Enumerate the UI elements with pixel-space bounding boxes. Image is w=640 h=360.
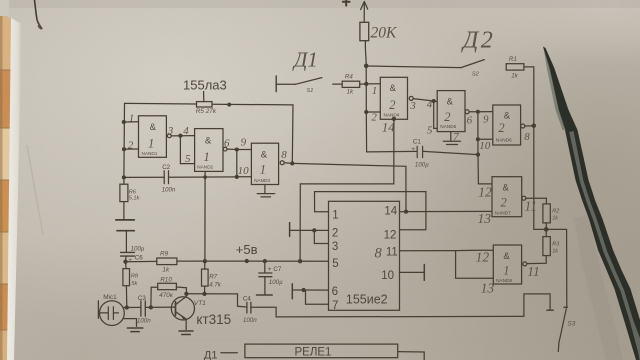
node on feedback wire bbox=[227, 103, 231, 107]
faint paper creases bbox=[27, 145, 43, 235]
wire C4 east to relay bus bbox=[251, 307, 524, 317]
wire chip pin6/pin7 tie bbox=[293, 290, 329, 304]
terminal chip pin2 bbox=[289, 223, 291, 237]
bubble NAND7 output bbox=[522, 196, 526, 200]
node pin2/pin3 tie bbox=[312, 228, 316, 232]
ground mic bbox=[127, 328, 143, 332]
node R4/NAND4 pin1 bbox=[364, 82, 368, 86]
wire relay east lead bbox=[398, 352, 425, 360]
wire NAND4 pin14 to +5v bbox=[300, 119, 394, 261]
node NAND3 input tie bbox=[235, 147, 239, 151]
leader line from label to R5 bbox=[203, 92, 205, 102]
wire NAND2 out to NAND3 bbox=[227, 148, 251, 150]
wooden surface at left edge bbox=[0, 0, 14, 360]
switch S1 terminal bar bbox=[275, 76, 277, 92]
capacitor C1 bbox=[367, 146, 478, 157]
node NAND4 supply drop bbox=[298, 259, 302, 263]
wire dash bbox=[221, 352, 237, 354]
wire pin14 to NAND7 pin13 bbox=[406, 210, 492, 212]
wire tie pins 4-5 bbox=[180, 136, 194, 164]
resistor R9 bbox=[157, 258, 177, 265]
wire S3 feed from R2/R3 node bbox=[546, 229, 567, 307]
white paper edge strip bbox=[7, 18, 22, 360]
op NAND7 bbox=[492, 177, 522, 217]
wire chip pin11 to NAND8 bbox=[400, 249, 494, 252]
soft shadow left of pen bbox=[574, 215, 623, 360]
node S2 branch bbox=[364, 64, 369, 69]
switch S3 contact bbox=[564, 306, 567, 308]
node collector bbox=[184, 292, 188, 296]
wire column down to R2/R3 node bbox=[534, 126, 546, 230]
op NAND5 bbox=[437, 91, 465, 132]
wire NAND5 out to NAND6 bbox=[469, 111, 493, 113]
node R7 bottom bbox=[202, 292, 206, 296]
wire node to NAND4 pin1 bbox=[366, 83, 380, 85]
node pin6 tie bbox=[301, 288, 305, 292]
bubble NAND1 output bbox=[167, 134, 171, 138]
wire NAND2 bottom supply drop bbox=[204, 171, 206, 261]
microphone Mic1 bbox=[100, 301, 125, 326]
node C7 top bbox=[263, 259, 267, 263]
op NAND6 bbox=[493, 105, 521, 145]
connector bar lower bbox=[117, 230, 134, 232]
wire tie pins 9-10 bbox=[236, 150, 238, 177]
wire bar to C6 bbox=[125, 231, 127, 252]
node NAND4 pin14 bottom bbox=[392, 117, 396, 121]
op NAND1 bbox=[139, 116, 167, 158]
capacitor C4 bbox=[247, 302, 251, 313]
node R2/R3 bbox=[544, 227, 549, 232]
bubble NAND3 output bbox=[280, 161, 284, 165]
wire feedback top bbox=[125, 103, 294, 105]
switch S1 lever bbox=[296, 78, 322, 85]
resistor R1 bbox=[506, 64, 524, 70]
node NAND6 tie bbox=[476, 110, 480, 114]
wire pin2 stub bbox=[124, 148, 139, 150]
terminal S3 left bbox=[547, 309, 553, 311]
ground VT1 emitter bbox=[179, 331, 193, 335]
terminal bar C7 bbox=[257, 294, 273, 296]
terminal chip pin10 bbox=[423, 265, 425, 281]
relay РЕЛЕ1 bbox=[245, 344, 398, 358]
wire C6 to rail node bbox=[125, 256, 128, 262]
switch S2 lever bbox=[461, 60, 484, 68]
wire NAND4 out to NAND5 bbox=[413, 99, 437, 102]
wire pin10 stub bbox=[237, 176, 252, 178]
bubble NAND6 output bbox=[521, 124, 525, 128]
wire NAND8 pin13 branch bbox=[456, 251, 494, 279]
node NAND2 input tie bbox=[178, 134, 182, 138]
wire 20K to node bbox=[364, 41, 367, 66]
wire chip pin10 bbox=[400, 271, 425, 273]
node R7 top bbox=[203, 259, 207, 263]
wire NAND6 out bbox=[525, 125, 534, 127]
wire bus down bbox=[365, 66, 367, 152]
resistor R6 bbox=[123, 177, 125, 219]
terminal chip pin6 bbox=[291, 284, 293, 299]
arrow supply bbox=[361, 2, 368, 23]
wire mic to C3 bbox=[124, 306, 141, 308]
pen dark body bbox=[543, 47, 640, 360]
wire NAND7 out to R2 bbox=[526, 198, 547, 204]
node NAND4 pin2 bbox=[364, 110, 368, 114]
resistor R7 bbox=[204, 261, 206, 294]
node +5v tap bbox=[245, 259, 249, 263]
node NAND6 out column bbox=[532, 123, 537, 128]
node C2 wire right end bbox=[235, 175, 239, 179]
op NAND4 bbox=[380, 77, 407, 119]
wire relay bus to S3 left contact bbox=[524, 294, 550, 317]
plus supply mark bbox=[343, 0, 350, 6]
wire NAND3 output east bbox=[284, 163, 406, 212]
wire tie pins 9-10 and C1 junction bbox=[478, 112, 492, 184]
wire pin10 stub bbox=[478, 138, 493, 140]
switch S1 wire bbox=[277, 83, 296, 85]
wire collector row bbox=[186, 294, 247, 307]
resistor R10 bbox=[158, 283, 177, 289]
capacitor C2 bbox=[164, 171, 168, 184]
transistor VT1 bbox=[171, 297, 194, 320]
connector bar upper bbox=[116, 219, 135, 221]
node R6 top bbox=[122, 175, 126, 179]
bubble NAND2 output bbox=[223, 147, 227, 151]
wire C2 row bbox=[124, 176, 237, 179]
ground NAND3 bbox=[257, 185, 275, 197]
wire tie pins 4-5 bbox=[434, 101, 438, 128]
bubble NAND8 output bbox=[523, 262, 527, 266]
switch S3 lever bbox=[558, 309, 566, 352]
wire chip pin3 bbox=[314, 230, 328, 243]
wire R10 riser bbox=[151, 287, 158, 307]
resistor R8 bbox=[126, 262, 127, 308]
wire pin2 stub bbox=[366, 111, 380, 113]
capacitor C3 bbox=[141, 301, 145, 316]
wire NAND1 out to NAND2 bbox=[171, 135, 194, 137]
bubble NAND5 output bbox=[465, 110, 469, 114]
node NAND5 tie bbox=[432, 99, 436, 103]
node mic output bbox=[125, 305, 129, 309]
node rail left end bbox=[123, 260, 127, 264]
IC 155ие2 bbox=[329, 201, 400, 310]
wire C3 to base bbox=[145, 306, 174, 308]
resistor R3 bbox=[527, 229, 546, 263]
pen / probe top right bbox=[543, 47, 640, 360]
node C1 wire junction bbox=[476, 153, 480, 157]
wire pin1 stub bbox=[124, 121, 139, 123]
node NAND2 supply crossing bbox=[203, 175, 207, 179]
ground NAND5 bbox=[443, 132, 460, 145]
op NAND8 bbox=[493, 245, 521, 284]
capacitor C7 bbox=[259, 261, 272, 294]
resistor R5 bbox=[197, 102, 213, 107]
wire pin14 stub bbox=[400, 211, 407, 213]
wire mic to ground bbox=[123, 319, 136, 327]
wire chip pin14 node bbox=[404, 209, 408, 213]
resistor 20K (hand drawn) bbox=[360, 22, 369, 40]
resistor R2 bbox=[543, 204, 550, 223]
wire feedback riser bbox=[291, 105, 294, 163]
node pin10 bbox=[476, 137, 480, 141]
+5v rail bbox=[126, 260, 329, 263]
pen metallic shine bbox=[569, 131, 640, 360]
wire chip pin1 to pin12 staircase bbox=[315, 192, 426, 230]
switch S2 wire bbox=[366, 66, 461, 68]
wire chip pin2 bbox=[290, 229, 329, 231]
op NAND3 bbox=[251, 143, 278, 184]
dark twig top-left bbox=[35, 0, 42, 28]
capacitor C6 bbox=[121, 252, 135, 256]
wire R10 to collector node bbox=[176, 287, 186, 294]
resistor R4 bbox=[333, 83, 342, 85]
wire left vertical bus bbox=[123, 103, 126, 177]
node feedback tap bbox=[290, 161, 294, 165]
op NAND2 bbox=[195, 129, 223, 172]
node base/R10 tap bbox=[149, 305, 153, 309]
bubble NAND4 output bbox=[409, 96, 413, 100]
pen tip highlight bbox=[544, 48, 566, 130]
node pin1 NAND1 bbox=[122, 120, 126, 124]
node pin2 NAND1 bbox=[122, 147, 126, 151]
wire R1 to NAND6 out column bbox=[524, 67, 534, 126]
